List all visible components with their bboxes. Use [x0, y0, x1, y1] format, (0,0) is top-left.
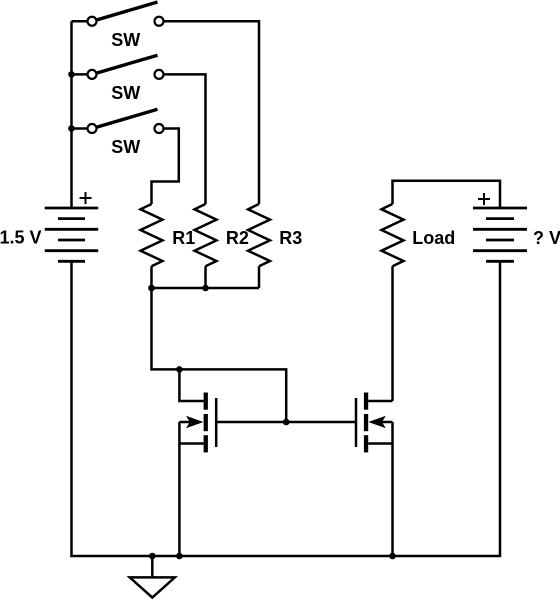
svg-text:SW: SW — [111, 83, 140, 103]
svg-text:? V: ? V — [533, 228, 560, 248]
svg-text:1.5 V: 1.5 V — [0, 228, 42, 248]
svg-text:R3: R3 — [279, 228, 302, 248]
svg-text:SW: SW — [111, 30, 140, 50]
svg-text:SW: SW — [111, 137, 140, 157]
svg-text:R2: R2 — [226, 228, 249, 248]
svg-text:Load: Load — [412, 228, 455, 248]
svg-text:R1: R1 — [172, 228, 195, 248]
